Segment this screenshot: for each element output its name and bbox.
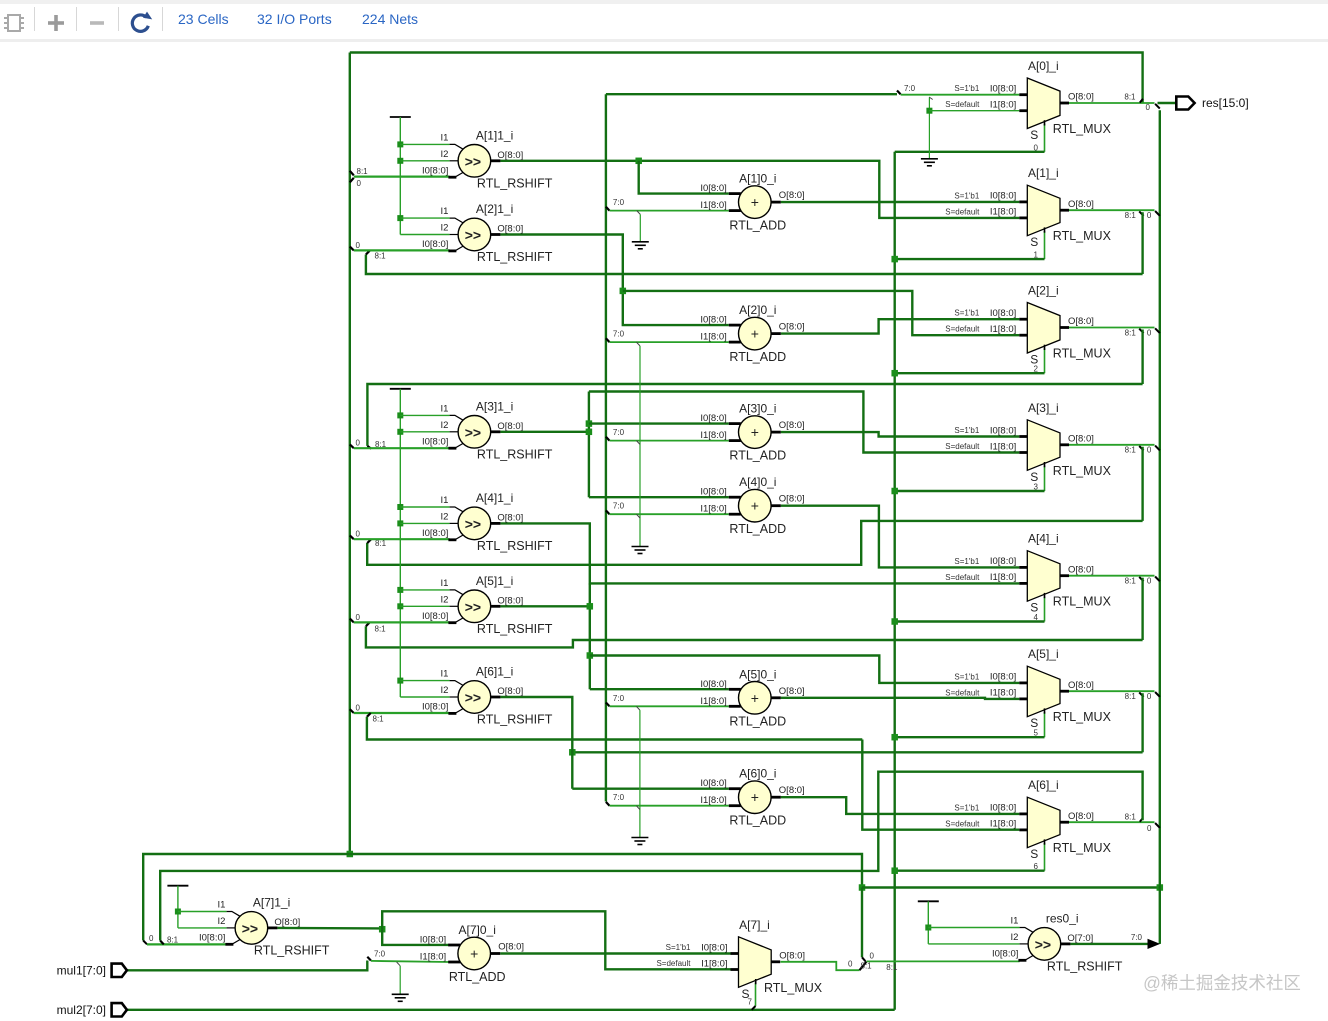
svg-text:A[7]1_i: A[7]1_i bbox=[253, 895, 290, 909]
svg-text:S=default: S=default bbox=[945, 325, 980, 334]
wire mul1 trunk top run bbox=[606, 93, 897, 95]
svg-text:+: + bbox=[751, 326, 759, 342]
wire A60 output bbox=[781, 797, 1020, 814]
svg-text:O[8:0]: O[8:0] bbox=[779, 686, 805, 697]
ground G0 bbox=[921, 159, 938, 166]
wire result trunk bbox=[1159, 110, 1161, 944]
junction A5 spine out bbox=[587, 603, 594, 610]
svg-text:I0[8:0]: I0[8:0] bbox=[990, 425, 1016, 436]
wire A2 S run bbox=[895, 372, 1045, 374]
wire A5 S run bbox=[895, 736, 1045, 738]
label A3 out 0 bbox=[1147, 446, 1152, 455]
shifter A[7]1_i bbox=[199, 895, 330, 957]
svg-text:I1[8:0]: I1[8:0] bbox=[990, 441, 1016, 452]
tick A31 I0 tap bbox=[350, 444, 354, 448]
junction T2 A51 I2 bbox=[397, 603, 403, 609]
wire A21 I2 bbox=[400, 234, 449, 236]
svg-text:O[8:0]: O[8:0] bbox=[497, 224, 523, 235]
mux A[3]_i bbox=[945, 401, 1111, 484]
svg-text:res0_i: res0_i bbox=[1046, 911, 1079, 925]
mux A[7]_i bbox=[656, 918, 822, 1001]
wire A6 loop up bbox=[160, 772, 1142, 941]
svg-text:S=1'b1: S=1'b1 bbox=[954, 803, 979, 812]
label A6 out 0 bbox=[1147, 824, 1152, 833]
wire A1 S pin bbox=[1044, 231, 1046, 259]
junction A5 spine mid bbox=[587, 652, 594, 659]
wire A20 I1 bbox=[610, 341, 729, 343]
wire A7 S pin bbox=[755, 983, 757, 1006]
adder A[4]0_i bbox=[700, 475, 804, 536]
svg-text:0: 0 bbox=[1147, 577, 1152, 586]
junction T3 A71 I1 bbox=[175, 909, 181, 915]
wire A31 I2 bbox=[400, 431, 449, 433]
tick A7 I0 bit0 bbox=[143, 941, 147, 945]
svg-text:>>: >> bbox=[242, 920, 258, 936]
svg-text:O[8:0]: O[8:0] bbox=[779, 420, 805, 431]
junction T2 A61 I1 bbox=[397, 678, 403, 684]
wire A3 loop return bbox=[367, 521, 1142, 565]
svg-text:RTL_MUX: RTL_MUX bbox=[1053, 347, 1112, 361]
wire A70 I0 feed bbox=[382, 929, 449, 945]
svg-text:RTL_ADD: RTL_ADD bbox=[729, 714, 786, 728]
svg-text:O[8:0]: O[8:0] bbox=[779, 190, 805, 201]
svg-text:+: + bbox=[751, 424, 759, 440]
wire A41 output bbox=[500, 523, 1019, 583]
wire A0net res0 bit0 drop bbox=[861, 888, 863, 958]
tick A51 I0 tap bbox=[350, 619, 354, 623]
svg-text:0: 0 bbox=[1147, 446, 1152, 455]
svg-text:0: 0 bbox=[1147, 824, 1152, 833]
wire A11 output bbox=[500, 161, 1019, 218]
wire A21 I0 bbox=[354, 249, 450, 251]
wire A50 I0 feed bbox=[590, 688, 729, 690]
svg-text:+: + bbox=[751, 498, 759, 514]
svg-text:8:1: 8:1 bbox=[1125, 577, 1137, 586]
tick mul1 tap A40 bbox=[606, 510, 610, 514]
label A61 rip 81 bbox=[373, 715, 385, 724]
junction T2 A41 I2 bbox=[397, 520, 403, 526]
shifter A[3]1_i bbox=[422, 399, 553, 461]
wire T3 vertical bbox=[177, 886, 179, 928]
tick A11 I0 tap b bbox=[350, 178, 354, 183]
svg-text:RTL_MUX: RTL_MUX bbox=[764, 981, 823, 995]
label A7 S num bbox=[748, 998, 753, 1007]
svg-text:I0[8:0]: I0[8:0] bbox=[700, 487, 726, 498]
svg-text:O[8:0]: O[8:0] bbox=[497, 686, 523, 697]
tick A7 S tap bbox=[752, 1006, 756, 1010]
port mul2[7:0] bbox=[57, 1003, 127, 1017]
svg-text:I1[8:0]: I1[8:0] bbox=[700, 504, 726, 515]
svg-text:A[2]0_i: A[2]0_i bbox=[739, 303, 776, 317]
label A7out 81a bbox=[861, 961, 873, 970]
label A0 S num bbox=[1034, 143, 1039, 152]
junction A0 I1 bbox=[926, 108, 932, 114]
svg-text:I1: I1 bbox=[440, 403, 448, 414]
wire gnd stub A10 bbox=[639, 214, 641, 241]
ground G1 bbox=[632, 242, 649, 249]
adder A[5]0_i bbox=[700, 667, 804, 728]
svg-text:A[0]_i: A[0]_i bbox=[1028, 59, 1059, 73]
wire A4 loop return bbox=[366, 626, 1143, 647]
svg-text:8:1: 8:1 bbox=[1125, 446, 1137, 455]
svg-text:I1: I1 bbox=[217, 900, 225, 911]
shifter A[4]1_i bbox=[422, 491, 553, 553]
svg-text:S=default: S=default bbox=[945, 819, 980, 828]
svg-text:RTL_ADD: RTL_ADD bbox=[729, 350, 786, 364]
junction T1 A11 I1 bbox=[397, 141, 403, 147]
junction A11 out to adder bbox=[635, 158, 642, 165]
label A4 out 8:1 bbox=[1125, 577, 1137, 586]
mux A[5]_i bbox=[945, 647, 1111, 730]
svg-text:I1[8:0]: I1[8:0] bbox=[990, 688, 1016, 699]
label mul1 tap A20 bbox=[613, 330, 625, 339]
svg-text:RTL_RSHIFT: RTL_RSHIFT bbox=[477, 713, 553, 727]
tick A5 out trunk merge bbox=[1155, 692, 1160, 697]
wire A71 output bbox=[277, 927, 382, 930]
wire A70 output bbox=[500, 952, 730, 954]
svg-text:mul1[7:0]: mul1[7:0] bbox=[57, 964, 106, 978]
tick mul1 tap A20 bbox=[606, 338, 610, 342]
wire A0net top border bbox=[350, 53, 1143, 104]
svg-text:A[6]_i: A[6]_i bbox=[1028, 778, 1059, 792]
svg-text:I1: I1 bbox=[440, 206, 448, 217]
wire A0 S run bbox=[895, 151, 1045, 153]
wire A70 I1 bbox=[371, 961, 450, 962]
junction A3 spine out bbox=[586, 429, 593, 436]
junction T2 A51 I1 bbox=[397, 587, 403, 593]
tick A11 I0 tap a bbox=[350, 171, 354, 176]
junction A21 out branch bbox=[620, 288, 627, 295]
svg-text:O[8:0]: O[8:0] bbox=[498, 942, 524, 953]
svg-text:I1[8:0]: I1[8:0] bbox=[420, 952, 446, 963]
junction T4 res0 I1 bbox=[925, 925, 931, 931]
svg-text:RTL_RSHIFT: RTL_RSHIFT bbox=[477, 250, 553, 264]
svg-text:A[3]1_i: A[3]1_i bbox=[476, 399, 513, 413]
svg-text:A[3]_i: A[3]_i bbox=[1028, 401, 1059, 415]
svg-text:A[7]_i: A[7]_i bbox=[739, 918, 770, 932]
junction A5 S bbox=[891, 734, 898, 741]
svg-text:I0[8:0]: I0[8:0] bbox=[700, 778, 726, 789]
tick A21 I0 81 merge bbox=[366, 251, 370, 255]
svg-text:+: + bbox=[751, 690, 759, 706]
label A4 out 0 bbox=[1147, 577, 1152, 586]
svg-text:S=1'b1: S=1'b1 bbox=[954, 557, 979, 566]
mux A[2]_i bbox=[945, 284, 1111, 367]
svg-text:A[6]1_i: A[6]1_i bbox=[476, 665, 513, 679]
wire A1 loop return bbox=[366, 255, 1143, 275]
tick mul1 tap A10 bbox=[606, 207, 610, 211]
wire mul1 input bbox=[127, 961, 367, 971]
tie-off T2 bbox=[390, 388, 411, 390]
junction A2 S bbox=[891, 370, 898, 377]
tick mul1 tap A60 bbox=[606, 802, 610, 806]
tick A0 loop merge bbox=[1140, 99, 1143, 103]
svg-text:mul2[7:0]: mul2[7:0] bbox=[57, 1003, 106, 1017]
label A5 S num bbox=[1034, 729, 1039, 738]
label A11 I0 0 bbox=[357, 179, 362, 188]
label A7out 0b bbox=[870, 952, 875, 961]
svg-text:0: 0 bbox=[1146, 103, 1151, 112]
svg-text:8:1: 8:1 bbox=[1124, 93, 1136, 102]
wire A30 output bbox=[781, 432, 1020, 436]
wire res0 output bbox=[1070, 943, 1148, 945]
svg-text:8:1: 8:1 bbox=[861, 961, 873, 970]
wire A41 I1 bbox=[400, 506, 449, 508]
tick A0 out trunk merge bbox=[1155, 104, 1160, 109]
svg-text:@稀土掘金技术社区: @稀土掘金技术社区 bbox=[1143, 973, 1301, 993]
svg-text:S: S bbox=[1030, 470, 1038, 484]
svg-text:8:1: 8:1 bbox=[886, 963, 898, 972]
label A4 S num bbox=[1034, 613, 1039, 622]
svg-text:I1: I1 bbox=[440, 669, 448, 680]
svg-text:+: + bbox=[470, 946, 478, 962]
svg-text:I1[8:0]: I1[8:0] bbox=[700, 696, 726, 707]
tick A3 out trunk merge bbox=[1155, 446, 1160, 451]
label mul1 tap A10 bbox=[613, 198, 625, 207]
toolbar icon schematic bbox=[0, 4, 170, 42]
svg-text:I0[8:0]: I0[8:0] bbox=[992, 949, 1018, 960]
tick A7mux out merge bbox=[860, 962, 867, 971]
svg-text:RTL_MUX: RTL_MUX bbox=[1053, 841, 1112, 855]
tick A7 I0 81 merge bbox=[160, 941, 164, 945]
label mul1 tap A50 bbox=[613, 694, 625, 703]
svg-text:I2: I2 bbox=[440, 149, 448, 160]
shifter A[1]1_i bbox=[422, 128, 553, 190]
svg-text:S: S bbox=[1030, 716, 1038, 730]
svg-text:7:0: 7:0 bbox=[1131, 933, 1143, 942]
wire A51 I2 bbox=[400, 605, 449, 607]
svg-text:6: 6 bbox=[1034, 862, 1039, 871]
svg-text:3: 3 bbox=[1034, 483, 1039, 492]
port res[15:0] bbox=[1176, 96, 1248, 110]
svg-text:0: 0 bbox=[356, 613, 361, 622]
tick mul1 tap A0 bbox=[897, 91, 901, 95]
svg-text:RTL_RSHIFT: RTL_RSHIFT bbox=[477, 539, 553, 553]
svg-text:I1[8:0]: I1[8:0] bbox=[700, 332, 726, 343]
wire A21 output bbox=[500, 235, 728, 326]
svg-text:S=1'b1: S=1'b1 bbox=[954, 672, 979, 681]
label A6 out 8:1 bbox=[1125, 813, 1137, 822]
junction T2 A41 I1 bbox=[397, 504, 403, 510]
svg-text:A[6]0_i: A[6]0_i bbox=[739, 767, 776, 781]
label A21 I0 0 bbox=[356, 241, 361, 250]
tie-off T4 bbox=[918, 900, 939, 902]
wire A41 I2 bbox=[400, 522, 449, 524]
junction A3 spine I0 bbox=[586, 420, 593, 427]
svg-text:I2: I2 bbox=[440, 223, 448, 234]
wire A6 S run bbox=[895, 870, 1045, 872]
svg-text:>>: >> bbox=[1035, 936, 1051, 952]
tick A4 out trunk merge bbox=[1155, 577, 1160, 582]
svg-text:7:0: 7:0 bbox=[613, 793, 625, 802]
svg-text:O[8:0]: O[8:0] bbox=[779, 785, 805, 796]
svg-text:RTL_RSHIFT: RTL_RSHIFT bbox=[1047, 959, 1123, 973]
svg-text:I2: I2 bbox=[1010, 932, 1018, 943]
watermark bbox=[1143, 973, 1301, 993]
shifter A[5]1_i bbox=[422, 574, 553, 636]
svg-text:I0[8:0]: I0[8:0] bbox=[700, 413, 726, 424]
svg-text:8:1: 8:1 bbox=[1125, 813, 1137, 822]
junction T1 A11 I2 bbox=[397, 158, 403, 164]
svg-text:7:0: 7:0 bbox=[613, 502, 625, 511]
wire A6 mux output bbox=[1069, 821, 1155, 823]
svg-text:I0[8:0]: I0[8:0] bbox=[422, 611, 448, 622]
svg-text:A[4]0_i: A[4]0_i bbox=[739, 475, 776, 489]
label mul1 tap A40 bbox=[613, 502, 625, 511]
wire A0 S pin bbox=[1044, 124, 1046, 152]
tick A2 out trunk merge bbox=[1155, 328, 1160, 333]
svg-text:I0[8:0]: I0[8:0] bbox=[420, 935, 446, 946]
label A5 out 8:1 bbox=[1125, 692, 1137, 701]
wire A3 mux output bbox=[1069, 444, 1155, 446]
svg-text:O[8:0]: O[8:0] bbox=[497, 150, 523, 161]
wire A20 output bbox=[781, 319, 1020, 333]
wire A10 I1 bbox=[610, 210, 729, 212]
label A7 I0 81 bbox=[167, 936, 179, 945]
wire A61 I2 bbox=[400, 696, 449, 698]
wire A5 spine bbox=[589, 583, 591, 689]
wire A7mux out to res0 bbox=[867, 960, 1020, 962]
svg-text:I1: I1 bbox=[440, 578, 448, 589]
svg-text:0: 0 bbox=[1147, 692, 1152, 701]
wire A4 S pin bbox=[1044, 597, 1046, 622]
svg-text:A[1]1_i: A[1]1_i bbox=[476, 128, 513, 142]
svg-text:I0[8:0]: I0[8:0] bbox=[990, 84, 1016, 95]
wire A0 I0 bbox=[901, 94, 1020, 96]
wire A0net A7 outer frame bbox=[143, 854, 350, 941]
svg-text:S: S bbox=[742, 987, 750, 1001]
label mul1 tap A60 bbox=[613, 793, 625, 802]
wire A51 I1 bbox=[400, 589, 449, 591]
svg-text:S=1'b1: S=1'b1 bbox=[954, 426, 979, 435]
wire A40 I0 feed bbox=[589, 496, 729, 498]
wire A1 loop down bbox=[1141, 212, 1143, 274]
svg-text:8:1: 8:1 bbox=[375, 539, 387, 548]
svg-text:0: 0 bbox=[1147, 328, 1152, 337]
adder A[3]0_i bbox=[700, 402, 804, 463]
svg-text:8:1: 8:1 bbox=[357, 167, 369, 176]
svg-text:S: S bbox=[1030, 601, 1038, 615]
svg-text:I0[8:0]: I0[8:0] bbox=[422, 239, 448, 250]
wire A21 to mux I1 bbox=[623, 291, 1020, 335]
label A21 I0 81 bbox=[375, 252, 387, 261]
svg-text:S=1'b1: S=1'b1 bbox=[954, 84, 979, 93]
tick A41 I0 tap bbox=[350, 535, 354, 539]
svg-text:8:1: 8:1 bbox=[167, 936, 179, 945]
arrowhead res0 to trunk bbox=[1148, 939, 1161, 949]
junction A71 out bbox=[379, 926, 386, 933]
label A51 I0 81 bbox=[375, 625, 387, 634]
label mul1 tap A0 bbox=[904, 84, 916, 93]
label A2 S num bbox=[1034, 365, 1039, 374]
wire A0net to result trunk bbox=[862, 886, 1160, 888]
wire A71 up branch bbox=[382, 911, 730, 969]
label A2 out 8:1 bbox=[1125, 328, 1137, 337]
svg-text:I1[8:0]: I1[8:0] bbox=[700, 795, 726, 806]
svg-text:res[15:0]: res[15:0] bbox=[1202, 96, 1249, 110]
svg-text:I2: I2 bbox=[440, 685, 448, 696]
label A61 I0 0 bbox=[356, 704, 361, 713]
svg-text:O[8:0]: O[8:0] bbox=[779, 494, 805, 505]
svg-text:RTL_MUX: RTL_MUX bbox=[1053, 464, 1112, 478]
label A6 S num bbox=[1034, 862, 1039, 871]
label res0 out 7:0 bbox=[1131, 933, 1143, 942]
svg-text:8:1: 8:1 bbox=[1125, 328, 1137, 337]
junction A0net x861 bbox=[859, 884, 866, 891]
wire A3 spine bbox=[588, 392, 590, 498]
wire A41 I0 bbox=[354, 538, 450, 540]
tie-off T1 bbox=[390, 116, 411, 118]
svg-text:I0[8:0]: I0[8:0] bbox=[422, 702, 448, 713]
svg-text:A[5]0_i: A[5]0_i bbox=[739, 667, 776, 681]
svg-text:I0[8:0]: I0[8:0] bbox=[422, 165, 448, 176]
wire A31 I1 bbox=[400, 414, 449, 416]
svg-text:I0[8:0]: I0[8:0] bbox=[990, 191, 1016, 202]
svg-text:>>: >> bbox=[465, 690, 481, 706]
svg-text:RTL_MUX: RTL_MUX bbox=[1053, 229, 1112, 243]
wire A60 I0 feed bbox=[572, 788, 729, 790]
svg-text:I0[8:0]: I0[8:0] bbox=[990, 308, 1016, 319]
svg-text:>>: >> bbox=[465, 227, 481, 243]
svg-text:RTL_MUX: RTL_MUX bbox=[1053, 122, 1112, 136]
svg-text:I0[8:0]: I0[8:0] bbox=[990, 803, 1016, 814]
svg-text:I2: I2 bbox=[440, 511, 448, 522]
svg-text:I0[8:0]: I0[8:0] bbox=[990, 556, 1016, 567]
wire res0 I1 bbox=[928, 927, 1019, 929]
ground G2 bbox=[632, 547, 649, 554]
svg-text:I0[8:0]: I0[8:0] bbox=[422, 528, 448, 539]
svg-text:8:1: 8:1 bbox=[375, 625, 387, 634]
junction A5 loop bbox=[569, 749, 576, 756]
svg-text:O[8:0]: O[8:0] bbox=[1068, 316, 1094, 327]
tick gnd A30 bbox=[636, 441, 640, 445]
svg-text:I1: I1 bbox=[1010, 916, 1018, 927]
wire A61 I0 bbox=[354, 712, 450, 714]
wire A7 I0 bit0 lead bbox=[147, 943, 227, 945]
svg-text:O[8:0]: O[8:0] bbox=[1068, 680, 1094, 691]
tick res0 bit0 merge bbox=[862, 957, 865, 961]
svg-text:0: 0 bbox=[356, 241, 361, 250]
shifter res0_i bbox=[992, 911, 1123, 973]
mux A[0]_i bbox=[945, 59, 1111, 142]
wire A0 out to port bbox=[1158, 102, 1177, 104]
adder A[1]0_i bbox=[700, 172, 804, 233]
junction A1 S bbox=[891, 256, 898, 263]
svg-text:+: + bbox=[751, 194, 759, 210]
wire A2 loop return bbox=[367, 384, 1142, 446]
svg-text:RTL_ADD: RTL_ADD bbox=[729, 814, 786, 828]
adder A[7]0_i bbox=[420, 923, 524, 984]
svg-text:S: S bbox=[1030, 847, 1038, 861]
svg-text:7:0: 7:0 bbox=[374, 950, 386, 959]
svg-text:A[5]1_i: A[5]1_i bbox=[476, 574, 513, 588]
tick mul1 tap A30 bbox=[606, 437, 610, 441]
svg-text:RTL_RSHIFT: RTL_RSHIFT bbox=[477, 622, 553, 636]
svg-text:I2: I2 bbox=[440, 594, 448, 605]
svg-text:7:0: 7:0 bbox=[904, 84, 916, 93]
svg-text:O[8:0]: O[8:0] bbox=[779, 951, 805, 962]
svg-text:S=default: S=default bbox=[945, 442, 980, 451]
tick A6 out trunk merge bbox=[1155, 823, 1160, 828]
svg-text:8:1: 8:1 bbox=[1125, 692, 1137, 701]
svg-text:O[8:0]: O[8:0] bbox=[1068, 92, 1094, 103]
svg-text:I1[8:0]: I1[8:0] bbox=[990, 572, 1016, 583]
svg-text:A[2]_i: A[2]_i bbox=[1028, 284, 1059, 298]
svg-text:I1[8:0]: I1[8:0] bbox=[700, 430, 726, 441]
tie-off T3 bbox=[167, 885, 188, 887]
svg-text:S=1'b1: S=1'b1 bbox=[954, 191, 979, 200]
tick A0 I1 split bbox=[929, 97, 933, 100]
